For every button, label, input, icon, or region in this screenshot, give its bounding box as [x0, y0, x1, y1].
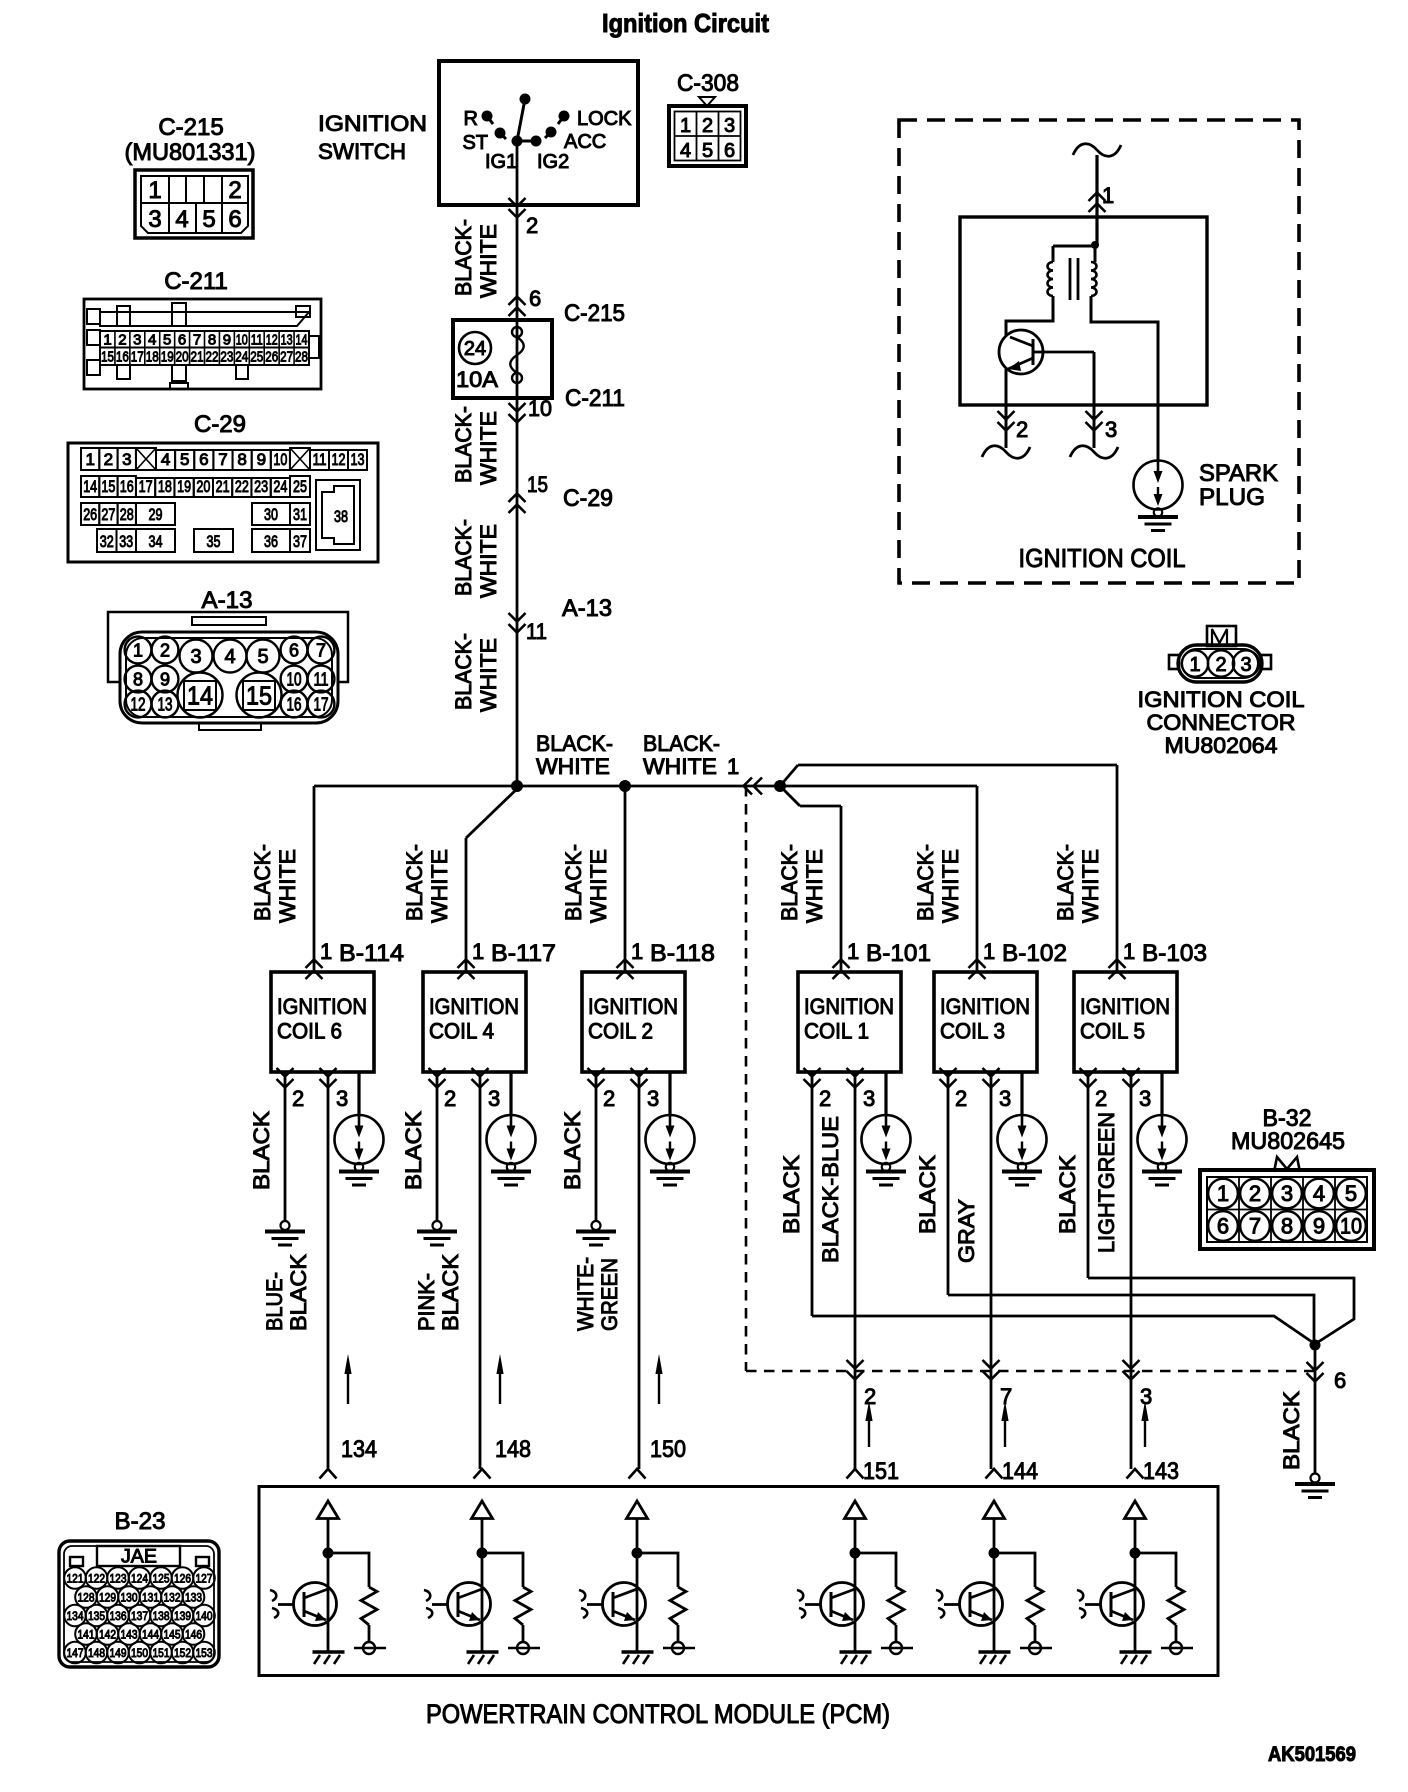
svg-text:IGNITION: IGNITION	[1080, 994, 1170, 1019]
ignition coil 1 box B-101	[777, 806, 931, 1185]
svg-text:LOCK: LOCK	[577, 108, 632, 130]
svg-text:23: 23	[254, 477, 268, 496]
PCM box	[259, 1487, 1218, 1676]
svg-text:26: 26	[83, 505, 97, 524]
svg-text:23: 23	[220, 349, 233, 366]
svg-text:3: 3	[999, 1086, 1011, 1111]
svg-text:15: 15	[527, 472, 548, 497]
resistor	[1135, 1553, 1176, 1587]
svg-text:IGNITION: IGNITION	[318, 111, 427, 136]
svg-text:C-215: C-215	[564, 300, 625, 327]
wire break at top	[1073, 144, 1121, 156]
svg-text:COIL 1: COIL 1	[804, 1019, 869, 1044]
svg-text:WHITE: WHITE	[586, 849, 611, 923]
supply triangle	[472, 1501, 493, 1519]
ignition coil 3 box B-102	[913, 786, 1067, 1185]
connector C-29	[68, 411, 378, 562]
svg-text:33: 33	[119, 532, 133, 551]
wire pin3 B-101 to PCM	[818, 1072, 876, 1469]
pin 3 (2)	[631, 1068, 648, 1077]
svg-text:13: 13	[281, 332, 293, 349]
svg-text:3: 3	[488, 1086, 500, 1111]
wire pin3 B-114 to PCM	[262, 1072, 352, 1469]
connector B-23 (JAE)	[59, 1508, 219, 1667]
inline connector A-13 on wire	[509, 613, 526, 622]
svg-text:10: 10	[1340, 1214, 1362, 1239]
svg-text:25: 25	[250, 349, 263, 366]
ignition coil 6 box B-114	[250, 786, 404, 1185]
svg-text:6: 6	[529, 286, 541, 311]
svg-text:LIGHTGREEN: LIGHTGREEN	[1094, 1112, 1119, 1253]
pin 3 (3)	[983, 1068, 1000, 1077]
transistor	[603, 1583, 646, 1626]
svg-text:A-13: A-13	[562, 595, 612, 622]
svg-text:3: 3	[1281, 1181, 1293, 1206]
svg-text:31: 31	[293, 505, 307, 524]
svg-text:6: 6	[724, 140, 735, 162]
svg-text:3: 3	[724, 115, 735, 137]
svg-text:B-103: B-103	[1142, 940, 1207, 967]
transistor	[448, 1583, 491, 1626]
transistor	[960, 1583, 1003, 1626]
svg-text:2: 2	[955, 1086, 967, 1111]
svg-text:5: 5	[163, 332, 171, 349]
ignition coil connector MU802064	[1138, 626, 1305, 758]
svg-text:2: 2	[1249, 1181, 1261, 1206]
resistor	[994, 1553, 1035, 1587]
svg-text:14: 14	[187, 681, 213, 711]
svg-text:15: 15	[246, 681, 272, 711]
svg-text:6: 6	[199, 450, 208, 469]
svg-text:143: 143	[1143, 1458, 1179, 1485]
svg-text:18: 18	[146, 349, 159, 366]
svg-text:9: 9	[1313, 1214, 1325, 1239]
svg-text:2: 2	[603, 1086, 615, 1111]
spark plug of COIL 1	[884, 1072, 887, 1115]
inline connector C-211 on wire	[509, 403, 526, 412]
svg-text:10: 10	[273, 450, 287, 469]
svg-text:WHITE: WHITE	[476, 524, 501, 598]
inline connector chevrons on bus	[744, 778, 753, 795]
svg-text:38: 38	[334, 507, 348, 526]
svg-text:3: 3	[1140, 1384, 1152, 1409]
svg-text:11: 11	[313, 450, 327, 469]
svg-text:152: 152	[174, 1646, 191, 1660]
ignition coil internal detail box	[899, 120, 1299, 583]
svg-text:GRAY: GRAY	[954, 1199, 979, 1263]
primary to transistor collector	[1006, 296, 1053, 336]
bus wire BLACK-WHITE distribution	[314, 785, 977, 788]
svg-text:17: 17	[139, 477, 153, 496]
svg-text:IGNITION: IGNITION	[277, 994, 367, 1019]
svg-text:10: 10	[287, 670, 302, 690]
svg-text:8: 8	[208, 332, 216, 349]
svg-text:3: 3	[190, 646, 201, 668]
svg-text:122: 122	[88, 1572, 105, 1586]
ignition switch box	[318, 61, 638, 205]
svg-text:144: 144	[142, 1628, 159, 1642]
chassis ground	[840, 1650, 872, 1654]
svg-text:132: 132	[164, 1591, 181, 1605]
svg-text:COIL 5: COIL 5	[1080, 1019, 1145, 1044]
svg-text:15: 15	[101, 477, 115, 496]
connector C-211	[84, 268, 321, 389]
PCM driver circuit 6 (pin 143)	[1077, 1458, 1193, 1664]
svg-text:121: 121	[67, 1572, 84, 1586]
svg-text:BLACK: BLACK	[915, 1155, 940, 1234]
svg-text:16: 16	[116, 349, 129, 366]
svg-text:135: 135	[88, 1609, 105, 1623]
svg-text:24: 24	[273, 477, 287, 496]
svg-text:11: 11	[251, 332, 263, 349]
svg-text:36: 36	[264, 532, 278, 551]
svg-text:21: 21	[191, 349, 204, 366]
svg-text:3: 3	[1240, 654, 1251, 676]
svg-text:C-211: C-211	[565, 385, 625, 412]
PCM driver circuit 4 (pin 151)	[797, 1458, 913, 1664]
svg-text:3: 3	[122, 450, 131, 469]
spark plug of COIL 5	[1160, 1072, 1163, 1115]
svg-text:124: 124	[131, 1572, 148, 1586]
svg-text:3: 3	[1105, 417, 1117, 442]
svg-text:WHITE: WHITE	[476, 224, 501, 298]
svg-text:1: 1	[472, 939, 484, 964]
svg-text:3: 3	[148, 206, 161, 233]
svg-text:5: 5	[1345, 1181, 1357, 1206]
transistor	[1101, 1583, 1144, 1626]
svg-text:16: 16	[120, 477, 134, 496]
svg-text:1: 1	[983, 939, 995, 964]
svg-text:146: 146	[185, 1628, 202, 1642]
svg-text:5: 5	[180, 450, 189, 469]
svg-text:133: 133	[185, 1591, 202, 1605]
svg-text:1: 1	[148, 177, 161, 204]
svg-text:10: 10	[236, 332, 248, 349]
svg-text:4: 4	[148, 332, 156, 349]
svg-text:C-215: C-215	[158, 114, 223, 141]
svg-text:C-308: C-308	[677, 70, 739, 97]
svg-text:IGNITION: IGNITION	[940, 994, 1030, 1019]
ignition coil 2 box B-118	[561, 786, 715, 1185]
svg-text:BLACK: BLACK	[286, 1254, 311, 1331]
connector B-32 MU802645	[1200, 1105, 1374, 1249]
svg-text:6: 6	[289, 641, 299, 661]
pin 2 (5)	[1080, 1068, 1097, 1077]
transformer	[1048, 241, 1100, 300]
inline connector C-215 on wire	[509, 308, 526, 317]
connector A-13	[108, 587, 348, 730]
fuse 24 10A	[453, 320, 552, 398]
svg-text:POWERTRAIN CONTROL MODULE (PCM: POWERTRAIN CONTROL MODULE (PCM)	[426, 1699, 890, 1729]
wire BLACK pin2 B-114 to ground	[249, 1072, 305, 1245]
svg-text:BLACK-: BLACK-	[451, 406, 476, 483]
svg-text:34: 34	[149, 532, 163, 551]
svg-text:148: 148	[495, 1436, 531, 1463]
svg-text:BLACK-: BLACK-	[561, 844, 586, 921]
spark plug of COIL 2	[668, 1072, 671, 1115]
svg-text:B-23: B-23	[115, 1508, 166, 1535]
svg-text:WHITE: WHITE	[476, 638, 501, 712]
svg-text:SWITCH: SWITCH	[318, 139, 406, 164]
svg-text:3: 3	[1139, 1086, 1151, 1111]
svg-text:134: 134	[341, 1436, 377, 1463]
svg-text:7: 7	[218, 450, 227, 469]
svg-text:CONNECTOR: CONNECTOR	[1147, 710, 1296, 735]
pin 3 (1)	[847, 1068, 864, 1077]
svg-text:139: 139	[174, 1609, 191, 1623]
svg-text:8: 8	[133, 670, 143, 690]
svg-text:1: 1	[631, 939, 643, 964]
svg-text:GREEN: GREEN	[597, 1258, 622, 1331]
svg-text:28: 28	[120, 505, 134, 524]
resistor	[328, 1553, 369, 1587]
svg-text:127: 127	[196, 1572, 213, 1586]
svg-text:17: 17	[131, 349, 144, 366]
svg-text:1: 1	[133, 641, 143, 661]
svg-text:AK501569: AK501569	[1268, 1743, 1356, 1766]
svg-text:B-118: B-118	[650, 940, 715, 967]
svg-text:131: 131	[142, 1591, 159, 1605]
svg-text:24: 24	[464, 338, 486, 360]
spark plug (detail)	[1134, 461, 1183, 510]
wire BLACK pin2 B-103	[1055, 1072, 1088, 1278]
pin 3 (6)	[320, 1068, 337, 1077]
svg-text:2: 2	[444, 1086, 456, 1111]
svg-text:BLACK: BLACK	[438, 1254, 463, 1331]
svg-text:Ignition Circuit: Ignition Circuit	[602, 8, 769, 38]
secondary to spark plug	[1091, 296, 1158, 460]
svg-text:C-29: C-29	[563, 485, 613, 512]
svg-text:27: 27	[280, 349, 293, 366]
pin 2 (1)	[804, 1068, 821, 1077]
svg-text:2: 2	[160, 641, 170, 661]
svg-text:IGNITION: IGNITION	[588, 994, 678, 1019]
svg-text:3: 3	[647, 1086, 659, 1111]
svg-text:128: 128	[78, 1591, 95, 1605]
ignition coil 5 box B-103	[1053, 765, 1207, 1185]
svg-text:17: 17	[314, 695, 329, 715]
svg-text:BLACK-: BLACK-	[913, 844, 938, 921]
svg-text:15: 15	[101, 349, 114, 366]
rotary contacts	[520, 94, 531, 105]
svg-text:6: 6	[1217, 1214, 1229, 1239]
svg-text:BLACK: BLACK	[1055, 1155, 1080, 1234]
svg-text:5: 5	[702, 140, 713, 162]
svg-text:150: 150	[131, 1646, 148, 1660]
svg-text:ACC: ACC	[564, 131, 606, 153]
svg-text:143: 143	[121, 1628, 138, 1642]
transistor	[294, 1583, 337, 1626]
svg-text:29: 29	[149, 505, 163, 524]
svg-text:138: 138	[153, 1609, 170, 1623]
spark plug of COIL 6	[357, 1072, 360, 1115]
svg-text:(MU801331): (MU801331)	[125, 139, 256, 166]
svg-text:2: 2	[1095, 1086, 1107, 1111]
svg-text:2: 2	[819, 1086, 831, 1111]
svg-text:R: R	[464, 108, 478, 130]
svg-text:19: 19	[177, 477, 191, 496]
svg-text:WHITE: WHITE	[275, 849, 300, 923]
chassis ground	[622, 1650, 654, 1654]
pin 2 (4)	[429, 1068, 446, 1077]
svg-text:BLACK-BLUE: BLACK-BLUE	[818, 1116, 843, 1263]
svg-text:8: 8	[1281, 1214, 1293, 1239]
wire pin3 B-118 to PCM	[573, 1072, 663, 1469]
svg-text:BLACK: BLACK	[401, 1111, 426, 1190]
svg-text:134: 134	[67, 1609, 84, 1623]
chassis ground	[313, 1650, 345, 1654]
pin 3 out	[1093, 352, 1096, 448]
svg-text:7: 7	[1000, 1384, 1012, 1409]
svg-text:BLUE-: BLUE-	[262, 1272, 287, 1331]
svg-text:13: 13	[158, 695, 173, 715]
svg-text:C-29: C-29	[194, 411, 246, 438]
svg-text:151: 151	[153, 1646, 170, 1660]
resistor	[482, 1553, 523, 1587]
coil inner box	[960, 217, 1207, 405]
wire BLACK pin2 B-117 to ground	[401, 1072, 457, 1245]
svg-text:150: 150	[650, 1436, 686, 1463]
svg-text:2: 2	[228, 177, 241, 204]
svg-text:BLACK: BLACK	[779, 1155, 804, 1234]
svg-text:IG1: IG1	[485, 151, 517, 173]
svg-text:1: 1	[727, 754, 739, 779]
svg-text:4: 4	[1313, 1181, 1325, 1206]
svg-text:A-13: A-13	[202, 587, 253, 614]
wire pin3 B-117 to PCM	[414, 1072, 504, 1469]
ignition coil 4 box B-117	[402, 838, 556, 1185]
svg-text:B-101: B-101	[866, 940, 931, 967]
svg-text:BLACK: BLACK	[560, 1111, 585, 1190]
svg-text:12: 12	[266, 332, 278, 349]
svg-text:4: 4	[224, 646, 235, 668]
PCM driver circuit 1 (pin 134)	[270, 1436, 386, 1664]
svg-text:1: 1	[1217, 1181, 1229, 1206]
svg-text:BLACK-: BLACK-	[402, 844, 427, 921]
spark plug of COIL 4	[509, 1072, 512, 1115]
PCM driver circuit 3 (pin 150)	[579, 1436, 695, 1664]
svg-text:144: 144	[1002, 1458, 1038, 1485]
svg-text:B-114: B-114	[339, 940, 404, 967]
branch diagonals	[780, 765, 798, 786]
svg-text:C-211: C-211	[164, 268, 228, 295]
svg-text:BLACK-: BLACK-	[451, 219, 476, 296]
svg-text:22: 22	[206, 349, 219, 366]
svg-text:BLACK-: BLACK-	[250, 844, 275, 921]
svg-text:4: 4	[680, 140, 691, 162]
svg-text:12: 12	[131, 695, 146, 715]
svg-text:20: 20	[196, 477, 210, 496]
svg-text:1: 1	[85, 450, 94, 469]
connector C-308	[669, 70, 746, 166]
svg-text:IGNITION: IGNITION	[804, 994, 894, 1019]
svg-text:COIL 3: COIL 3	[940, 1019, 1005, 1044]
svg-text:153: 153	[196, 1646, 213, 1660]
svg-text:21: 21	[216, 477, 230, 496]
supply triangle	[1125, 1501, 1146, 1519]
svg-text:9: 9	[160, 670, 170, 690]
svg-text:3: 3	[133, 332, 141, 349]
svg-text:IG2: IG2	[537, 151, 569, 173]
svg-text:20: 20	[176, 349, 189, 366]
svg-text:1: 1	[1189, 654, 1200, 676]
svg-text:WHITE: WHITE	[427, 849, 452, 923]
svg-text:BLACK-: BLACK-	[1053, 844, 1078, 921]
svg-text:JAE: JAE	[121, 1547, 157, 1568]
svg-text:2: 2	[1215, 654, 1226, 676]
pin 2 (2)	[588, 1068, 605, 1077]
svg-text:7: 7	[1249, 1214, 1261, 1239]
transistor	[821, 1583, 864, 1626]
svg-text:WHITE: WHITE	[643, 754, 717, 779]
svg-text:149: 149	[110, 1646, 127, 1660]
svg-text:MU802645: MU802645	[1231, 1128, 1345, 1155]
resistor	[855, 1553, 896, 1587]
wire pin3 B-102 to PCM	[954, 1072, 1012, 1469]
pin 3 (5)	[1123, 1068, 1140, 1077]
svg-text:22: 22	[235, 477, 249, 496]
svg-text:2: 2	[864, 1384, 876, 1409]
chassis ground	[979, 1650, 1011, 1654]
svg-text:130: 130	[121, 1591, 138, 1605]
svg-text:WHITE-: WHITE-	[573, 1257, 598, 1331]
BLACK common ground wire (right bank)	[812, 1278, 1354, 1498]
svg-text:4: 4	[175, 206, 188, 233]
svg-text:147: 147	[67, 1646, 84, 1660]
svg-text:13: 13	[351, 450, 365, 469]
svg-text:10: 10	[528, 396, 552, 421]
svg-text:COIL 4: COIL 4	[429, 1019, 494, 1044]
svg-text:WHITE: WHITE	[476, 411, 501, 485]
connector C-215 (MU801331)	[125, 114, 256, 238]
svg-text:BLACK-: BLACK-	[451, 519, 476, 596]
wire pin 1 into coil	[1095, 155, 1098, 244]
svg-text:1: 1	[1102, 183, 1114, 208]
svg-text:12: 12	[332, 450, 346, 469]
svg-text:123: 123	[110, 1572, 127, 1586]
svg-text:WHITE: WHITE	[1078, 849, 1103, 923]
svg-text:1: 1	[847, 939, 859, 964]
wire BLACK pin2 B-118 to ground	[560, 1072, 616, 1245]
pin 2 (3)	[940, 1068, 957, 1077]
supply triangle	[845, 1501, 866, 1519]
pin 2 (6)	[277, 1068, 294, 1077]
svg-text:1: 1	[680, 115, 691, 137]
svg-text:16: 16	[287, 695, 302, 715]
svg-text:137: 137	[131, 1609, 148, 1623]
svg-text:11: 11	[314, 670, 329, 690]
svg-text:1: 1	[1123, 939, 1135, 964]
svg-text:2: 2	[1016, 417, 1028, 442]
svg-text:8: 8	[237, 450, 246, 469]
svg-text:151: 151	[863, 1458, 899, 1485]
svg-text:2: 2	[118, 332, 126, 349]
wire: ignition switch output (main vertical)	[516, 141, 519, 786]
pin 2 out	[1005, 369, 1008, 448]
svg-text:1: 1	[103, 332, 111, 349]
PCM driver circuit 5 (pin 144)	[936, 1458, 1052, 1664]
svg-text:125: 125	[153, 1572, 170, 1586]
svg-text:35: 35	[207, 532, 221, 551]
svg-text:BLACK: BLACK	[249, 1111, 274, 1190]
svg-text:PINK-: PINK-	[414, 1273, 439, 1331]
svg-text:2: 2	[292, 1086, 304, 1111]
svg-text:WHITE: WHITE	[938, 849, 963, 923]
svg-text:10A: 10A	[456, 367, 498, 392]
svg-text:3: 3	[336, 1086, 348, 1111]
svg-text:2: 2	[702, 115, 713, 137]
svg-text:IGNITION COIL: IGNITION COIL	[1019, 543, 1186, 573]
